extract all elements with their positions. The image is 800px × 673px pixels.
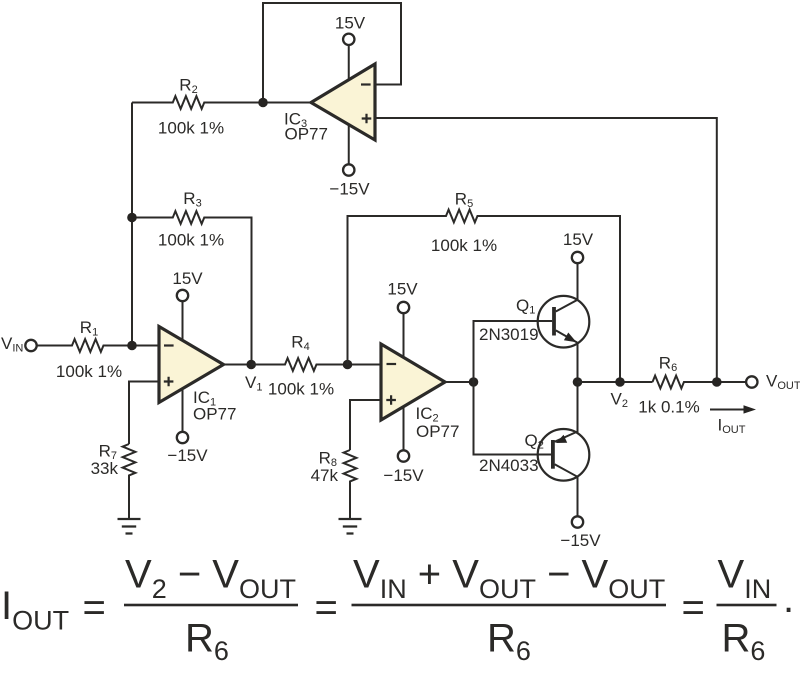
power 15V IC2: wire bbox=[403, 314, 405, 358]
svg-text:15V: 15V bbox=[387, 280, 418, 299]
wire: V2 row bbox=[578, 381, 653, 383]
svg-text:100k 1%: 100k 1% bbox=[158, 230, 224, 249]
node: R1 / IC1 inverting input junction bbox=[127, 341, 137, 351]
svg-text:R6: R6 bbox=[487, 617, 531, 667]
resistor R7 bbox=[123, 444, 136, 519]
svg-text:OP77: OP77 bbox=[285, 125, 328, 144]
svg-text:Q2: Q2 bbox=[525, 431, 544, 452]
terminal VIN bbox=[25, 340, 36, 351]
svg-text:R3: R3 bbox=[183, 189, 201, 210]
svg-text:R6: R6 bbox=[659, 354, 677, 375]
transistor Q2 emitter arrow bbox=[556, 435, 567, 443]
svg-text:IOUT: IOUT bbox=[1, 584, 69, 636]
svg-text:VIN + VOUT − VOUT: VIN + VOUT − VOUT bbox=[353, 553, 665, 605]
svg-text:−15V: −15V bbox=[329, 180, 370, 199]
transistor Q2 base bar bbox=[551, 440, 555, 469]
power 15V IC3: terminal bbox=[343, 34, 354, 45]
wire: IC2 output to base node bbox=[445, 381, 474, 383]
node: IC2 output junction bbox=[469, 377, 479, 387]
svg-text:R1: R1 bbox=[80, 318, 98, 339]
power -15V IC1: wire bbox=[182, 389, 184, 432]
power -15V IC1: terminal bbox=[177, 432, 188, 443]
resistor R2 bbox=[132, 96, 311, 109]
svg-text:−15V: −15V bbox=[167, 446, 208, 465]
svg-text:.: . bbox=[783, 577, 794, 621]
svg-text:OP77: OP77 bbox=[193, 405, 236, 424]
plus sign IC3 bbox=[362, 114, 372, 124]
wire: left bus x=132 from R2 down to R1 node bbox=[131, 103, 133, 346]
plus sign IC2 bbox=[386, 395, 396, 405]
svg-text:=: = bbox=[83, 586, 106, 630]
op-amp IC1 (points right) bbox=[159, 327, 224, 403]
resistor R1 bbox=[37, 339, 159, 352]
svg-text:15V: 15V bbox=[172, 269, 203, 288]
svg-text:=: = bbox=[682, 586, 705, 630]
transistor Q2 emitter bbox=[555, 382, 578, 442]
svg-text:VIN: VIN bbox=[718, 553, 772, 605]
svg-text:100k 1%: 100k 1% bbox=[268, 380, 334, 399]
svg-text:R2: R2 bbox=[179, 76, 197, 97]
svg-text:V2 − VOUT: V2 − VOUT bbox=[125, 553, 296, 605]
op-amp IC3 (points left) bbox=[311, 64, 375, 140]
node: R5 tap on V2 bbox=[615, 377, 625, 387]
power 15V IC2: terminal bbox=[398, 302, 409, 313]
minus sign IC3 bbox=[361, 83, 371, 85]
ground (R7) bbox=[118, 519, 141, 534]
transistor Q1 emitter arrow bbox=[564, 333, 577, 343]
power -15V IC2: wire bbox=[403, 407, 405, 450]
transistor Q2 body bbox=[538, 429, 590, 481]
power -15V IC2: terminal bbox=[398, 450, 409, 461]
svg-text:33k: 33k bbox=[91, 459, 119, 478]
svg-text:R5: R5 bbox=[455, 190, 473, 211]
resistor R5 bbox=[348, 210, 621, 382]
wire: IC3 + input to VOUT node bbox=[375, 118, 717, 382]
svg-text:R6: R6 bbox=[722, 617, 766, 667]
node: R4 / IC2 inverting input / R5 junction bbox=[343, 360, 353, 370]
svg-text:15V: 15V bbox=[563, 230, 594, 249]
resistor R3 bbox=[132, 211, 252, 364]
node: VOUT junction bbox=[712, 377, 722, 387]
transistor Q1 emitter bbox=[556, 330, 578, 342]
wire: Q1 emitter to V2 node bbox=[577, 343, 579, 382]
svg-text:100k 1%: 100k 1% bbox=[431, 236, 497, 255]
svg-text:IOUT: IOUT bbox=[718, 416, 746, 437]
node: R2/R3 bus junction bbox=[127, 213, 137, 223]
wire: IC2 + input to R8 bbox=[350, 400, 381, 450]
transistor Q2 collector bbox=[555, 464, 578, 516]
svg-text:2N3019: 2N3019 bbox=[479, 325, 539, 344]
wire: IC1 + input to R7 bbox=[129, 382, 159, 445]
svg-text:=: = bbox=[315, 586, 338, 630]
minus sign IC2 bbox=[387, 363, 397, 365]
svg-text:15V: 15V bbox=[335, 14, 366, 33]
power -15V IC3: terminal bbox=[343, 164, 354, 175]
wire: feedback loop IC3 output to inverting input bbox=[263, 3, 401, 103]
svg-text:Q1: Q1 bbox=[516, 296, 535, 317]
power -15V IC3: wire bbox=[348, 124, 350, 164]
svg-text:V2: V2 bbox=[611, 390, 628, 411]
transistor Q1 body bbox=[538, 296, 590, 348]
node V1 bbox=[246, 360, 256, 370]
power 15V IC1: wire bbox=[182, 302, 184, 341]
svg-text:1k 0.1%: 1k 0.1% bbox=[638, 398, 699, 417]
formula: IOUT = (V2 - VOUT)/R6 = (VIN + VOUT - VOUT)/R6 = VIN/R6 . bbox=[1, 553, 794, 667]
terminal VOUT bbox=[746, 376, 757, 387]
svg-text:VOUT: VOUT bbox=[766, 372, 800, 393]
svg-text:−15V: −15V bbox=[560, 531, 601, 550]
wire: base drive to Q1 bbox=[474, 321, 553, 382]
formula bar 3 bbox=[717, 604, 777, 607]
svg-text:R4: R4 bbox=[291, 333, 309, 354]
power 15V IC1: terminal bbox=[177, 290, 188, 301]
power -15V Q2: terminal bbox=[572, 516, 583, 527]
svg-text:VIN: VIN bbox=[1, 334, 23, 355]
svg-text:100k 1%: 100k 1% bbox=[56, 362, 122, 381]
minus sign IC1 bbox=[164, 344, 174, 346]
svg-text:100k 1%: 100k 1% bbox=[158, 119, 224, 138]
arrow IOUT bbox=[710, 409, 744, 411]
resistor R6 bbox=[653, 376, 747, 389]
resistor R4 bbox=[251, 358, 381, 371]
power 15V IC3: wire bbox=[348, 45, 350, 80]
ground (R8) bbox=[339, 519, 362, 534]
op-amp IC2 (points right) bbox=[381, 344, 445, 420]
svg-text:R6: R6 bbox=[185, 617, 229, 667]
svg-text:V1: V1 bbox=[245, 373, 262, 394]
formula bar 2 bbox=[352, 604, 667, 607]
svg-text:−15V: −15V bbox=[383, 466, 424, 485]
svg-text:OP77: OP77 bbox=[416, 422, 459, 441]
wire: IC1 output to V1 node bbox=[224, 364, 252, 366]
node: IC3 output junction bbox=[258, 98, 268, 108]
power 15V Q1: terminal bbox=[572, 252, 583, 263]
svg-text:47k: 47k bbox=[311, 466, 339, 485]
resistor R8 bbox=[344, 450, 357, 519]
svg-text:2N4033: 2N4033 bbox=[479, 456, 539, 475]
node V2 (emitter junction) bbox=[573, 377, 583, 387]
transistor Q1 collector bbox=[556, 264, 578, 312]
formula bar 1 bbox=[124, 604, 298, 607]
plus sign IC1 bbox=[164, 377, 174, 387]
transistor Q1 base bar bbox=[552, 307, 556, 336]
wire: base drive to Q2 bbox=[474, 382, 552, 455]
